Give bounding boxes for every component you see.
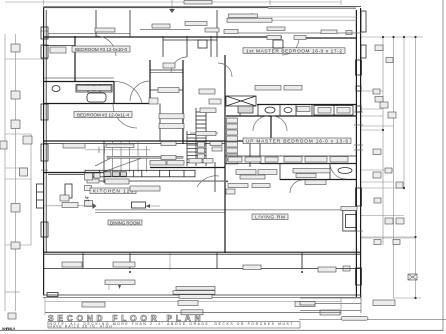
wall x150 bbox=[149, 60, 151, 104]
top wall thin continuation bbox=[268, 6, 361, 8]
deck rail line bbox=[43, 268, 361, 270]
stacked deck note labels bbox=[176, 287, 215, 291]
powder row wall y180 right bbox=[280, 179, 356, 181]
wall x280 powder bbox=[279, 163, 281, 180]
bottom dim labels bbox=[82, 302, 105, 307]
dining dim line bbox=[192, 180, 228, 182]
kitchen dim arrow bbox=[44, 205, 96, 207]
counter label row bbox=[105, 179, 129, 184]
wall x330 powder right bbox=[329, 163, 331, 180]
wall x225 long bbox=[224, 55, 226, 253]
top dim arrow bbox=[169, 9, 175, 13]
beam bar y157 bbox=[107, 156, 183, 158]
left dimension line A bbox=[5, 34, 44, 311]
master bath fixtures row bbox=[240, 105, 312, 117]
left exterior wall bbox=[43, 8, 45, 295]
kitchen area labels bbox=[63, 144, 85, 149]
bath label row bbox=[77, 86, 111, 91]
svg-text:UP MASTER BEDROOM 16-0 x 13-6: UP MASTER BEDROOM 16-0 x 13-6 bbox=[246, 139, 348, 145]
master1 door arc bbox=[282, 38, 299, 55]
sheet bottom border bbox=[0, 329, 443, 331]
left wall window frames bbox=[41, 27, 48, 39]
deck labels bbox=[62, 262, 82, 267]
label kitchen bbox=[90, 188, 136, 195]
lower stair treads bbox=[103, 142, 105, 184]
svg-text:BEDROOM #2 12-0x11-4: BEDROOM #2 12-0x11-4 bbox=[77, 113, 129, 118]
bedroom3 closet line bbox=[44, 45, 75, 47]
hall closet walls bbox=[150, 89, 183, 91]
deck posts bbox=[83, 253, 302, 269]
left mid labels bbox=[159, 114, 184, 119]
label dining room bbox=[108, 220, 142, 225]
closet shelf stack bbox=[227, 118, 238, 164]
right wall window marks bbox=[354, 112, 363, 231]
label living bbox=[252, 214, 288, 221]
svg-text:KITCHEN 123: KITCHEN 123 bbox=[93, 189, 133, 195]
label master bedroom 2 bbox=[243, 138, 351, 145]
long rule above notes bbox=[45, 312, 341, 314]
right wall window frames bbox=[356, 60, 362, 75]
left dim labels bbox=[11, 44, 20, 52]
powder row labels bbox=[236, 170, 256, 175]
deck bottom edge bbox=[43, 294, 361, 296]
master2 door arcs bbox=[272, 116, 287, 131]
right dimension baseline bbox=[361, 37, 423, 298]
svg-text:BEDROOM #3 12-0x10-0: BEDROOM #3 12-0x10-0 bbox=[75, 47, 127, 52]
stair direction diagonal bbox=[99, 157, 146, 174]
right wall window bump bbox=[361, 11, 366, 32]
top exterior wall bbox=[43, 6, 268, 8]
left chimney bump bbox=[37, 184, 44, 208]
top dim tick label bbox=[184, 1, 212, 5]
hall labels bbox=[163, 63, 175, 68]
wall x260 bbox=[259, 141, 261, 163]
bath door arc bbox=[114, 81, 142, 103]
wall y37.5 long bbox=[44, 36, 282, 38]
wall x271 below bath bbox=[270, 116, 272, 141]
dining door arc bbox=[197, 176, 219, 187]
hanging box below wall bbox=[273, 40, 283, 48]
small arrow mid dining bbox=[146, 205, 160, 207]
left wall window marks bbox=[41, 31, 48, 237]
label bedroom3 top bbox=[95, 28, 115, 32]
bed2 entry arc bbox=[113, 104, 137, 128]
master bath row labels bbox=[200, 108, 216, 113]
wall x160 mid bbox=[159, 104, 161, 142]
laundry row wall y156/163.5 bbox=[225, 155, 356, 157]
wall y167 bbox=[150, 167, 225, 169]
balcony labels right bbox=[305, 180, 326, 185]
deck corner foot bbox=[47, 293, 58, 297]
toilet bbox=[52, 86, 60, 92]
svg-text:DINING ROOM: DINING ROOM bbox=[110, 220, 140, 225]
misc labels upper mid bbox=[267, 36, 281, 40]
right dim dots bbox=[382, 36, 417, 299]
wall x75 bed3 bbox=[74, 36, 76, 82]
wall x96 top bbox=[95, 10, 97, 37]
note rows master1 bbox=[229, 14, 258, 18]
wall y81 bath bbox=[44, 81, 114, 83]
closet labels top bbox=[140, 29, 190, 31]
wall y103 bed2 top bbox=[44, 103, 150, 105]
closet dividers top bbox=[162, 36, 164, 57]
master suite row walls bbox=[257, 104, 356, 106]
second diagonal bbox=[95, 159, 110, 167]
powder door arc bbox=[290, 180, 303, 193]
wc box bbox=[198, 40, 207, 48]
wall x183 hall right bbox=[182, 60, 184, 144]
stair label boxes column bbox=[198, 142, 205, 147]
bath fixtures row bbox=[76, 85, 112, 93]
powder oval bbox=[338, 168, 352, 174]
small kitchen boxes bbox=[85, 173, 93, 180]
X closet master bbox=[226, 96, 256, 106]
kitchen counter block bbox=[85, 170, 195, 177]
kitchen-dining line y210 bbox=[95, 209, 356, 211]
svg-text:LIVING RM: LIVING RM bbox=[255, 215, 285, 221]
wall x114 bath right bbox=[113, 82, 115, 104]
left appliance boxes bbox=[87, 173, 93, 178]
up arrow line bbox=[190, 132, 218, 134]
scale bubble bbox=[341, 317, 368, 321]
bath top thin line bbox=[44, 77, 114, 79]
living top wall y163 right bbox=[260, 163, 356, 165]
label deck center bbox=[130, 186, 160, 191]
note box bbox=[48, 322, 300, 328]
living entry arc bbox=[330, 163, 346, 179]
wall y172 left bbox=[44, 172, 104, 174]
right dim labels bbox=[346, 31, 352, 35]
svg-text:HAVE RAILS 36 IN. HIGH: HAVE RAILS 36 IN. HIGH bbox=[50, 325, 113, 329]
label master bedroom 1 bbox=[243, 48, 345, 55]
label bedroom#3 row bbox=[72, 46, 130, 52]
stair upper run bbox=[187, 108, 206, 166]
stair rail dim line bbox=[85, 149, 150, 151]
right exterior wall bbox=[355, 10, 357, 297]
bed2 door arc bbox=[130, 81, 150, 101]
closet lower wall bbox=[163, 39, 217, 41]
wall y181 kitchen bbox=[95, 180, 225, 182]
svg-text:9-HRML.9: 9-HRML.9 bbox=[2, 327, 15, 331]
bottom house wall over deck bbox=[43, 251, 361, 253]
island box on line bbox=[132, 202, 146, 208]
laundry row labels bbox=[228, 157, 242, 162]
tub bbox=[87, 93, 106, 102]
wall y141 long bbox=[44, 140, 260, 142]
wall x250 bbox=[249, 141, 251, 167]
label bedroom#2 bbox=[74, 112, 132, 118]
bed3 entry arc bbox=[96, 36, 116, 56]
top overall dimension line bbox=[5, 0, 341, 10]
bottom dimension lines bbox=[45, 253, 341, 315]
sheet right border bbox=[442, 0, 444, 331]
title block divider lines bottom right bbox=[300, 295, 361, 313]
labels above closet bbox=[255, 86, 281, 91]
wall x130 top bbox=[129, 10, 131, 37]
ceiling lines master1 bbox=[252, 16, 357, 18]
svg-text:1st MASTER BEDROOM 16-0 x 17-2: 1st MASTER BEDROOM 16-0 x 17-2 bbox=[246, 48, 342, 54]
fridge bbox=[65, 184, 72, 198]
svg-text:14': 14' bbox=[85, 195, 91, 202]
hall door arcs top bbox=[218, 63, 232, 77]
fireplace bbox=[343, 211, 356, 232]
